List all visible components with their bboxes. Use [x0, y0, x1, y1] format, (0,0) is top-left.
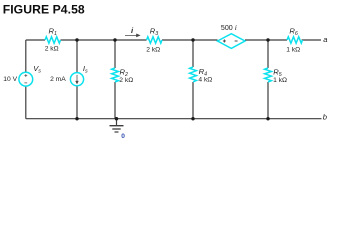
svg-text:i: i	[131, 26, 134, 35]
svg-text:500 i: 500 i	[221, 23, 237, 32]
svg-text:b: b	[323, 113, 327, 122]
svg-text:a: a	[323, 35, 327, 44]
svg-text:Is: Is	[83, 64, 88, 75]
svg-text:R6: R6	[289, 27, 297, 38]
svg-text:10 V: 10 V	[3, 76, 17, 83]
svg-text:R5: R5	[273, 68, 281, 79]
svg-text:2 kΩ: 2 kΩ	[45, 46, 59, 53]
svg-text:0: 0	[121, 133, 125, 140]
svg-text:2 kΩ: 2 kΩ	[146, 47, 160, 54]
svg-text:R3: R3	[150, 27, 158, 38]
svg-text:Vs: Vs	[33, 64, 41, 75]
svg-text:FIGURE P4.58: FIGURE P4.58	[3, 2, 85, 16]
svg-text:R4: R4	[199, 67, 207, 78]
svg-text:2 mA: 2 mA	[50, 76, 66, 83]
svg-text:1 kΩ: 1 kΩ	[286, 46, 300, 53]
svg-text:R1: R1	[49, 26, 57, 37]
svg-text:R2: R2	[120, 68, 128, 79]
